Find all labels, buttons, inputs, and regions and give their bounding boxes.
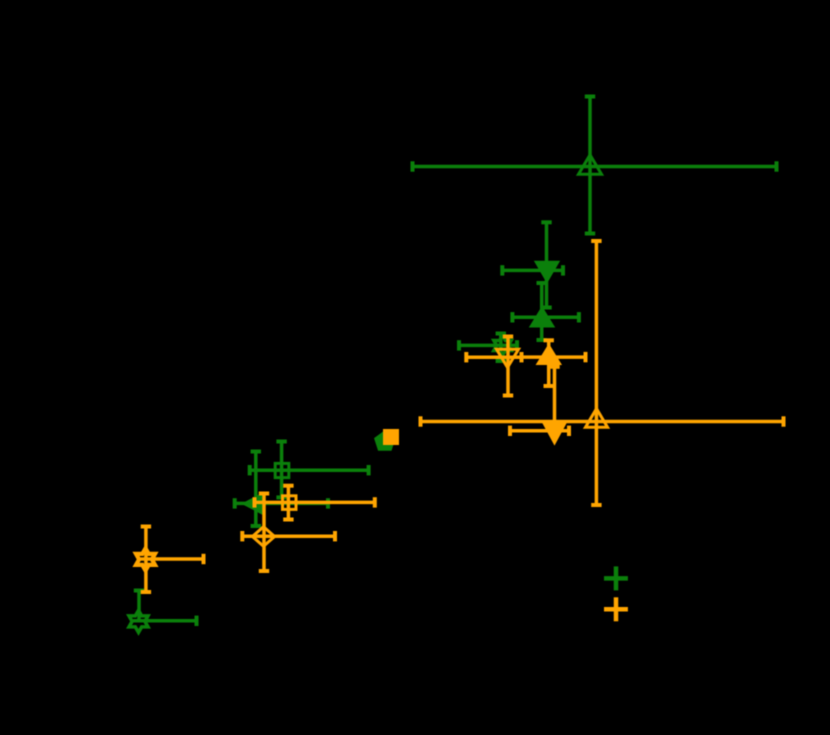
marker O6 filled up-triangle: [538, 346, 560, 364]
marker P1 filled pentagon: [376, 432, 395, 450]
errorbar O12 vertical: [287, 486, 291, 520]
errorbar G16 horizontal: [133, 619, 197, 623]
errorbar O15 horizontal: [138, 557, 204, 561]
errorbar O6 vertical: [547, 340, 551, 386]
marker O18 plus: [604, 597, 628, 621]
marker O9 hollow up-triangle: [586, 409, 608, 428]
errorbar O9 vertical: [595, 241, 599, 505]
errorbar O6 horizontal: [524, 355, 586, 359]
marker O15 hollow six-point star: [136, 548, 155, 570]
errorbar O5 vertical: [506, 337, 510, 396]
errorbar G16 vertical: [137, 591, 141, 622]
marker O8 filled down-triangle: [543, 422, 565, 443]
errorbar O15 vertical: [144, 527, 148, 593]
errorbar O8 vertical: [553, 367, 557, 430]
errorbar G11 vertical: [254, 452, 258, 527]
errorbar O5 horizontal: [466, 355, 521, 359]
errorbar O13 horizontal: [242, 534, 335, 538]
errorbar G4 horizontal: [459, 344, 517, 348]
marker O12 hollow square: [283, 496, 297, 510]
marker G2 filled down-triangle: [536, 262, 558, 281]
marker G10 hollow square: [275, 463, 289, 477]
marker G1 hollow up-triangle: [579, 155, 602, 174]
errorbar O9 horizontal: [421, 420, 784, 424]
marker O13 hollow diamond: [252, 527, 274, 547]
marker G17 plus: [604, 566, 628, 590]
marker G11 filled left-triangle: [244, 494, 263, 514]
errorbar G2 vertical: [545, 222, 549, 307]
errorbar O8 horizontal: [510, 429, 569, 433]
marker O5 hollow down-triangle: [497, 349, 519, 367]
marker P2 filled square: [383, 429, 399, 445]
errorbar G3 vertical: [540, 283, 544, 340]
errorbar G11 horizontal: [235, 502, 328, 506]
errorbar G10 vertical: [280, 442, 284, 498]
marker G4 hollow six-point star: [494, 336, 511, 356]
errorbar G1 horizontal: [413, 165, 777, 169]
errorbar G1 vertical: [588, 97, 592, 234]
errorbar G3 horizontal: [512, 316, 579, 320]
marker G3 filled up-triangle: [531, 308, 553, 326]
errorbar G4 vertical: [499, 334, 503, 362]
errorbar O12 horizontal: [255, 501, 375, 505]
marker G16 hollow six-point star: [129, 610, 148, 632]
errorbar G10 horizontal: [250, 468, 369, 472]
errorbar G2 horizontal: [502, 269, 563, 273]
errorbar O13 vertical: [262, 494, 266, 572]
